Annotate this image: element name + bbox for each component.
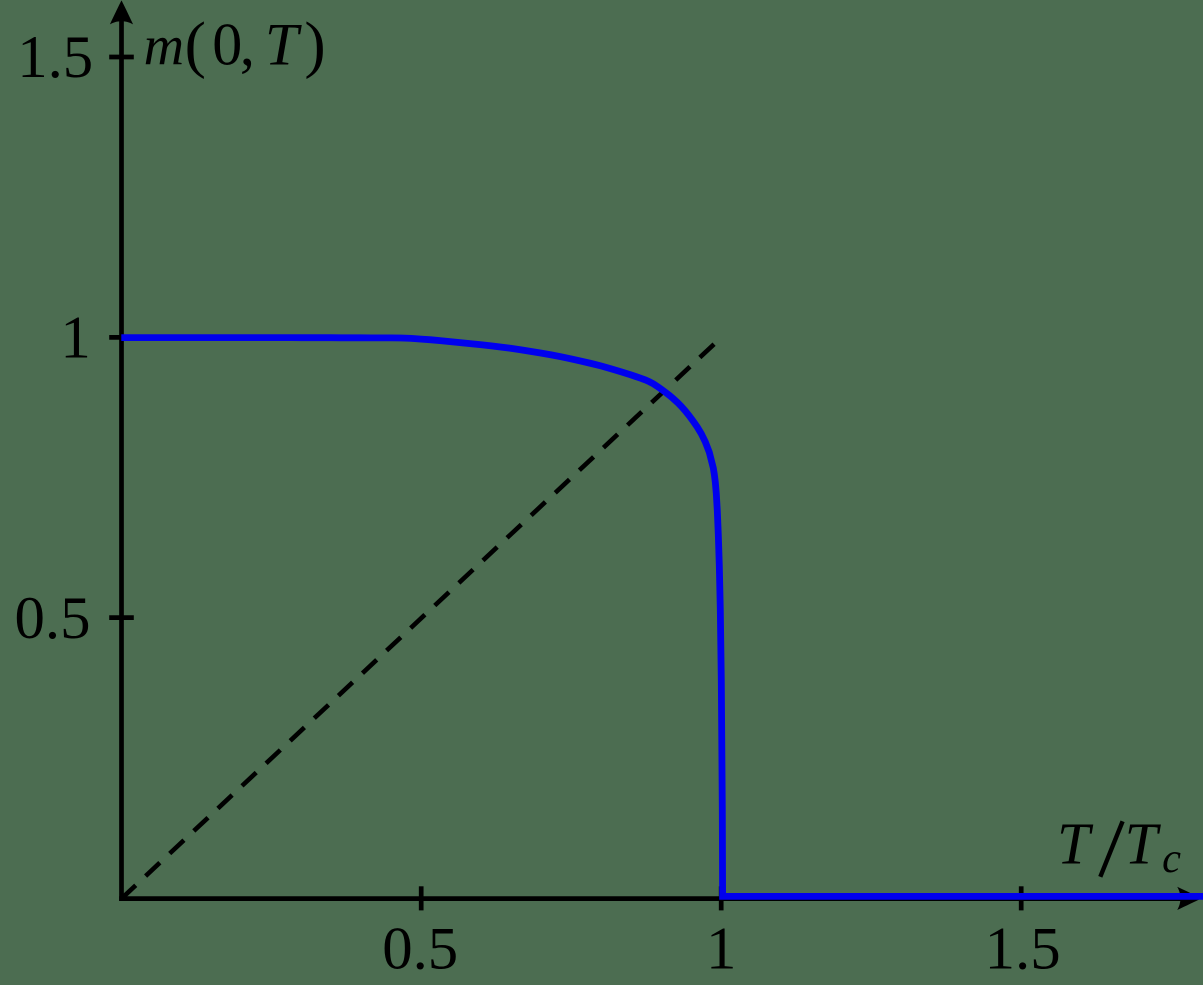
- svg-text:T: T: [1125, 810, 1162, 876]
- svg-text:0.5: 0.5: [15, 585, 91, 652]
- x-axis: [119, 896, 1196, 901]
- x tick 1: [719, 886, 724, 910]
- svg-text:,: ,: [240, 12, 255, 78]
- y-axis: [119, 8, 124, 901]
- y-axis arrowhead: [110, 0, 133, 24]
- svg-text:0.5: 0.5: [382, 916, 458, 983]
- svg-text:(: (: [185, 8, 206, 79]
- axis title T/Tc: [1057, 810, 1181, 882]
- y tick 0.5: [109, 615, 134, 620]
- svg-text:0: 0: [212, 12, 242, 78]
- x-axis arrowhead: [1177, 887, 1201, 910]
- svg-text:1.5: 1.5: [985, 915, 1061, 982]
- axis title m(0,T): [144, 8, 326, 79]
- x tick 0.5: [419, 886, 424, 910]
- x tick 1.5: [1019, 886, 1024, 910]
- dashed line m = T/Tc: [122, 337, 722, 898]
- svg-text:T: T: [265, 12, 302, 78]
- blue magnetization curve: [121, 338, 1203, 897]
- svg-text:c: c: [1162, 835, 1181, 882]
- y tick 1.5: [109, 55, 134, 60]
- svg-text:1.5: 1.5: [17, 24, 93, 91]
- svg-text:T: T: [1057, 810, 1094, 876]
- svg-text:m: m: [144, 16, 184, 78]
- svg-text:1: 1: [706, 915, 736, 982]
- svg-text:): ): [304, 8, 325, 79]
- y tick 1: [109, 335, 134, 340]
- svg-text:1: 1: [60, 305, 90, 372]
